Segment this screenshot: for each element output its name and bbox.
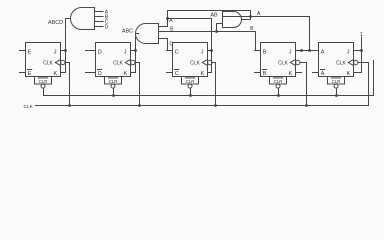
junction at J of C	[210, 49, 213, 52]
junction CLR of D on CLR bus	[112, 94, 115, 97]
svg-text:A: A	[321, 50, 325, 56]
wire clock of D to CLK bus	[135, 62, 140, 64]
wire branch to J/K of C	[168, 18, 212, 20]
wire K input stub of C	[208, 72, 212, 74]
wire Q output stub of C	[167, 50, 173, 52]
svg-text:K: K	[347, 71, 351, 77]
svg-text:CLR: CLR	[109, 79, 118, 84]
wire input D stub of gate ABCD	[95, 26, 104, 28]
wire AB gate output rail to gate ABC	[242, 19, 251, 21]
svg-text:CLK: CLK	[190, 60, 200, 66]
wire net B: Q of B to rail	[256, 50, 261, 52]
wire clock of C to CLK bus	[212, 62, 216, 64]
flip-flop C (JK)	[173, 43, 213, 89]
svg-text:J: J	[201, 49, 204, 55]
svg-text:ABCD: ABCD	[48, 20, 63, 26]
flip-flop D (JK)	[96, 43, 136, 89]
svg-text:E: E	[28, 71, 32, 77]
wire clock of B to CLK bus	[300, 62, 307, 64]
wire K input stub of A	[354, 72, 362, 74]
svg-text:C: C	[175, 71, 179, 77]
wire Q output stub of B	[255, 50, 261, 52]
wire Qbar output stub of C	[167, 72, 173, 74]
wire Q output stub of E	[20, 50, 26, 52]
svg-text:B: B	[263, 71, 267, 77]
svg-text:C: C	[175, 50, 179, 56]
wire J input stub of B	[296, 50, 302, 52]
wire CLK bus	[36, 105, 369, 107]
svg-text:B: B	[263, 50, 267, 56]
wire ABCD gate output to J/K of E	[66, 18, 71, 20]
wire input C of gate ABC from Q of C	[159, 38, 168, 40]
wire K input stub of D	[131, 72, 136, 74]
svg-text:CLK: CLK	[113, 60, 123, 66]
svg-text:CLR: CLR	[274, 79, 283, 84]
svg-text:AB: AB	[210, 12, 218, 18]
and-gate ABCD (4-input, feeds J/K of E)	[71, 8, 95, 30]
svg-text:K: K	[124, 71, 128, 77]
svg-text:J: J	[347, 49, 350, 55]
svg-text:K: K	[201, 71, 205, 77]
junction clock of C on CLK bus	[214, 104, 217, 107]
junction at J of A	[360, 49, 363, 52]
wire clock of A to CLK bus	[358, 62, 369, 64]
and-gate ABC (3-input, feeds J/K of D)	[136, 24, 159, 44]
and-gate AB (2-input)	[223, 12, 242, 28]
svg-text:CLK: CLK	[43, 60, 53, 66]
wire J input stub of E	[61, 50, 66, 52]
svg-text:J: J	[124, 49, 127, 55]
svg-text:C: C	[170, 42, 174, 48]
svg-text:E: E	[28, 50, 32, 56]
junction on B rail	[215, 30, 218, 33]
wire input A of gate ABC up to top rail	[159, 26, 168, 28]
junction at J of D	[134, 49, 137, 52]
wire net A rail	[223, 16, 310, 18]
junction CLR of C on CLR bus	[189, 94, 192, 97]
wire CLR of E to CLR bus	[43, 88, 45, 95]
wire K input stub of E	[61, 72, 66, 74]
flip-flop E (JK)	[26, 43, 66, 89]
wire Q output stub of D	[86, 50, 96, 52]
wire CLR of C to CLR bus	[190, 88, 192, 95]
junction on A rail crossing	[249, 15, 252, 18]
svg-text:CLR: CLR	[39, 79, 48, 84]
wire CLR of A to CLR bus	[336, 88, 338, 95]
wire Qbar output stub of B	[255, 72, 261, 74]
junction clock of E on CLK bus	[68, 104, 71, 107]
svg-text:K: K	[289, 71, 293, 77]
wire CLR bus	[44, 95, 374, 97]
wire net 1 to J/K of A	[361, 37, 363, 72]
wire Qbar output stub of D	[86, 72, 96, 74]
wire J input stub of D	[131, 50, 136, 52]
svg-text:D: D	[98, 50, 102, 56]
junction at J of B	[300, 49, 303, 52]
svg-text:CLR: CLR	[186, 79, 195, 84]
flip-flop B (JK)	[261, 43, 300, 89]
wire K input stub of B	[296, 72, 302, 74]
wire J input stub of C	[208, 50, 212, 52]
wire input B stub of gate ABCD	[95, 16, 104, 18]
wire input B of gate AB down to B rail	[217, 23, 223, 25]
junction A net	[308, 49, 311, 52]
junction CLR of A on CLR bus	[335, 94, 338, 97]
wire Q output stub of A	[313, 50, 319, 52]
flip-flop A (JK)	[319, 43, 358, 89]
junction clock of B on CLK bus	[305, 104, 308, 107]
svg-text:A: A	[321, 71, 325, 77]
svg-text:CLK: CLK	[278, 60, 288, 66]
svg-text:CLR: CLR	[332, 79, 341, 84]
svg-text:K: K	[54, 71, 58, 77]
svg-text:D: D	[98, 71, 102, 77]
junction CLR of B on CLR bus	[277, 94, 280, 97]
svg-text:J: J	[289, 49, 292, 55]
svg-text:CLK: CLK	[24, 104, 34, 110]
wire Qbar output stub of E	[20, 72, 26, 74]
wire Qbar output stub of A	[313, 72, 319, 74]
wire net A: Q of A to J/K of B	[302, 50, 319, 52]
junction at J of E	[64, 49, 67, 52]
wire input A stub of gate ABCD	[95, 11, 104, 13]
junction clock of D on CLK bus	[138, 104, 141, 107]
wire clock of E to CLK bus	[65, 62, 70, 64]
svg-text:ABC: ABC	[122, 29, 133, 35]
wire ABC gate output to J/K of D	[136, 33, 139, 35]
wire CLR of D to CLR bus	[113, 88, 115, 95]
wire J input stub of A	[354, 50, 362, 52]
svg-text:J: J	[54, 49, 57, 55]
wire input C stub of gate ABCD	[95, 21, 104, 23]
svg-text:CLK: CLK	[336, 60, 346, 66]
junction on input vertical	[166, 17, 169, 20]
wire CLR of B to CLR bus	[278, 88, 280, 95]
svg-text:D: D	[105, 25, 109, 31]
